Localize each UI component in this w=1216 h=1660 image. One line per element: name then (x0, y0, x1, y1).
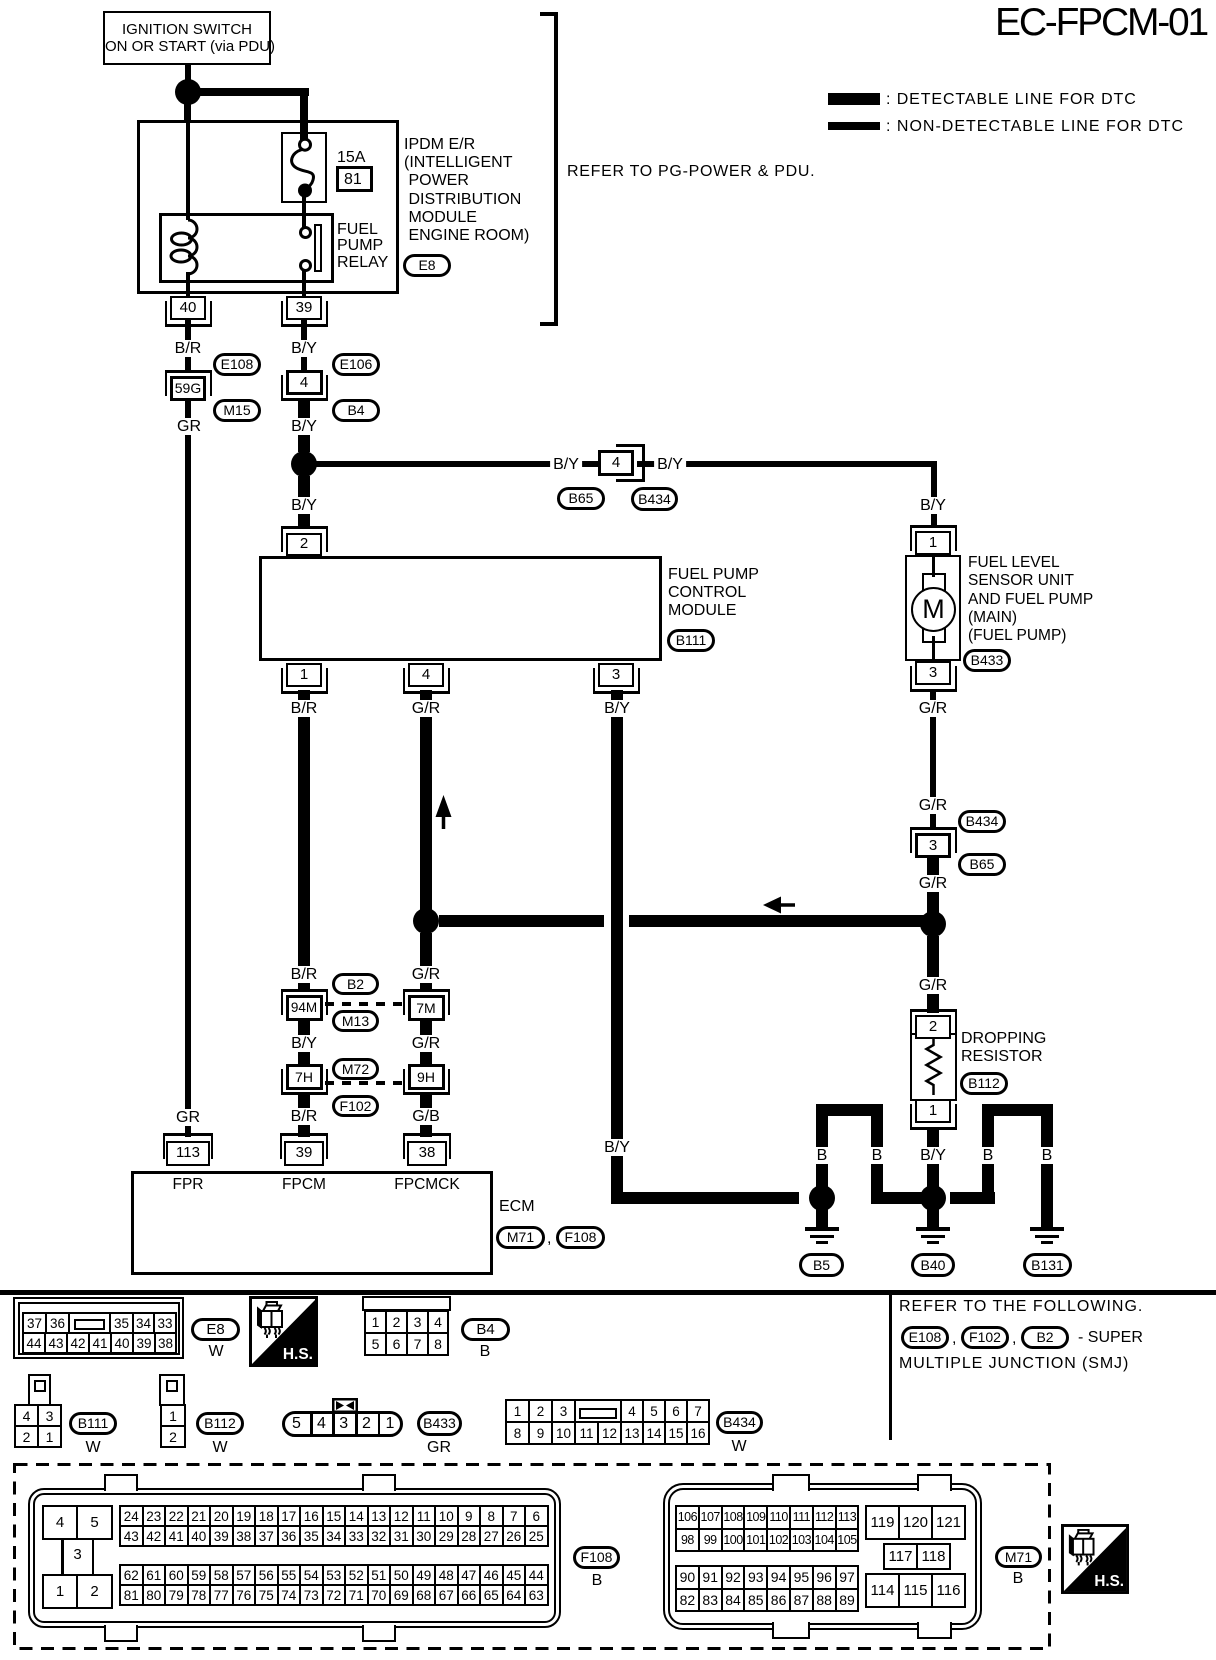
ground B5 oval (799, 1253, 844, 1277)
label G/R below 7M (409, 1035, 443, 1052)
dashed harness box (0, 1450, 1216, 1660)
label G/R above 7M (409, 966, 443, 983)
junction dot G/R right (920, 911, 946, 937)
connector E106 oval (332, 353, 380, 376)
fuel pump pin 1 box (915, 531, 951, 555)
ECM pin 113 box (166, 1141, 210, 1166)
label B staple1 right (869, 1147, 886, 1164)
connector F108 left cells top (42, 1505, 113, 1540)
connector B434 oval upper (958, 810, 1006, 833)
connector M71 shell bottom tabs (772, 1622, 810, 1639)
legend detectable text (886, 91, 1137, 108)
connector B112 tab inner square (166, 1380, 178, 1392)
wire GR 59G to ECM 113 (185, 400, 191, 1137)
ECM pin 38 bracket (403, 1133, 451, 1159)
label B/Y below 94M (288, 1035, 320, 1052)
wire B/Y resistor to ground dot (927, 1127, 939, 1191)
fuel pump pin 3 box (915, 661, 951, 685)
connector F108 grid bottom (119, 1564, 549, 1606)
label FPCMCK (394, 1176, 459, 1193)
connector 9H bracket (403, 1069, 450, 1095)
connector B433 oval row (417, 1411, 462, 1436)
wire B/R FPCM pin1 to 94M (298, 690, 310, 990)
fuel pump text block (968, 554, 1093, 645)
arrow left on G/R horizontal (762, 895, 796, 915)
connector B433 cell divider (355, 1412, 358, 1436)
connector B111 oval (69, 1412, 117, 1435)
junction dot G/R left (413, 908, 439, 934)
wire B/Y junction to SMJ4 (315, 461, 600, 467)
connector F108 shell tabs (104, 1474, 138, 1491)
label B/R above ECM (288, 1108, 321, 1125)
fuel pump pin 1 bracket (910, 525, 957, 551)
ECM pin 38 box (407, 1141, 447, 1166)
label B/Y relay (288, 340, 320, 357)
label B/Y above pin2 (288, 497, 320, 514)
refer bracket (540, 12, 558, 326)
connector 7H bracket (281, 1069, 328, 1095)
wire B/Y SMJ4 to fuel pump (637, 461, 937, 467)
ground staple1 left arm (816, 1112, 828, 1188)
ignition switch text (105, 21, 269, 55)
label B/Y below resistor (917, 1147, 949, 1164)
label G/R above junction right (916, 875, 950, 892)
label B/Y above junction (288, 418, 320, 435)
label G/R above resistor (916, 977, 950, 994)
refer smj text (899, 1355, 1129, 1373)
wire G/R SMJ3 to junction (927, 857, 939, 913)
connector M71 oval big (995, 1546, 1042, 1568)
dropping resistor text (961, 1030, 1046, 1065)
ground symbol B40 (916, 1227, 950, 1231)
connector B433 pin 3 cell box (332, 1411, 357, 1437)
fuse rating 15A (337, 149, 365, 167)
refer super text (1078, 1329, 1143, 1347)
wire junction right (199, 88, 309, 96)
connector F102 oval (332, 1095, 379, 1117)
wire G/R junction to 7M (420, 933, 432, 990)
connector B112 oval (960, 1072, 1008, 1095)
connector M15 oval (213, 399, 261, 422)
label B staple2 right (1039, 1147, 1056, 1164)
fuel level sensor unit box (905, 555, 961, 661)
dashed tie 7H to 9H (325, 1081, 409, 1085)
wire fuse to relay contact (302, 196, 306, 231)
fuse number 81 (344, 171, 362, 189)
connector M71 oval (496, 1226, 545, 1249)
ECM pin 39 box (284, 1141, 324, 1166)
connector B433 pin strip (282, 1411, 403, 1437)
wire G/R horizontal right part (629, 915, 933, 927)
label B staple1 left (814, 1147, 831, 1164)
connector B65 oval (557, 487, 605, 510)
connector 94M bracket (281, 989, 328, 1015)
connector B112 pin grid (160, 1404, 186, 1448)
refer to pg-power text (567, 163, 815, 181)
label G/R above SMJ3 (916, 797, 950, 814)
label B/R below pin1 (288, 700, 321, 717)
relay contact lower terminal (299, 259, 312, 272)
connector M72 oval (332, 1058, 379, 1080)
fuel pump relay text (337, 222, 388, 271)
label B/Y above ground bus (601, 1139, 633, 1156)
pin 2 bracket (281, 526, 328, 552)
comma 2 (1012, 1330, 1016, 1348)
label B/R left (172, 340, 205, 357)
label FPCM (282, 1176, 326, 1193)
SMJ connector 4 inline bracket (616, 444, 645, 482)
legend non-detectable text (886, 118, 1184, 135)
connector B433 cell divider (378, 1412, 381, 1436)
wire G/R FPCM pin4 down (420, 690, 432, 915)
connector M13 oval (332, 1010, 379, 1032)
connector 59G box (170, 376, 206, 401)
connector B433 pin 1 (386, 1415, 395, 1432)
SMJ connector 3 box (915, 833, 951, 858)
wire B/Y pin39 to conn4 (301, 320, 307, 372)
wire stub to ground B40 (927, 1205, 939, 1229)
H.S. logo bottom (1061, 1521, 1129, 1597)
label B under B4 (480, 1343, 491, 1360)
IPDM E/R box (137, 120, 399, 294)
ground staple2 left arm (982, 1116, 994, 1204)
label G/B above ECM (409, 1108, 443, 1125)
connector B433 oval (963, 649, 1011, 672)
wire ignition to junction (185, 63, 191, 81)
label GR bottom (173, 1109, 203, 1126)
connector E8 oval (403, 254, 451, 277)
pin 40 of IPDM (170, 296, 206, 320)
label B/Y left of SMJ4 (550, 456, 582, 473)
label W under B111 (85, 1439, 100, 1456)
connector F108 left cells bottom (42, 1574, 113, 1609)
wire G/R 7M to 9H (420, 1021, 432, 1065)
wire junction down to IPDM (184, 103, 191, 122)
pin 3 of FPCM (598, 663, 634, 687)
label GR top (174, 418, 204, 435)
connector 9H box (408, 1064, 445, 1090)
ignition switch box (103, 11, 271, 65)
connector B111 top tab (28, 1374, 51, 1406)
wire contact to pin 39 (302, 271, 306, 297)
connector B433 pin 3 (339, 1415, 348, 1432)
pin 39 bracket (281, 301, 328, 327)
junction dot ignition (175, 79, 201, 105)
arrow up on G/R wire (434, 794, 454, 830)
connector 7M bracket (403, 989, 450, 1015)
label B/R above 94M (288, 966, 321, 983)
fuel pump control module box (259, 556, 662, 661)
connector M71 right top (865, 1505, 966, 1540)
wire G/B 9H to ECM 38 (420, 1095, 432, 1137)
label B/Y above fuel pump (917, 497, 949, 514)
connector M71 grid top (675, 1505, 859, 1552)
SMJ connector 3 bracket (910, 827, 957, 853)
wire B/R 7H to ECM 39 (298, 1095, 310, 1137)
connector M71 grid bottom (675, 1565, 859, 1612)
connector B4 pin grid (364, 1310, 449, 1356)
connector E8 pin grid (22, 1312, 177, 1334)
connector B111 tab inner square (34, 1380, 46, 1392)
connector B434 oval row (716, 1411, 763, 1434)
ECM pin 39 bracket (280, 1133, 328, 1159)
label B under F108 (592, 1572, 603, 1589)
refer E108 oval (901, 1326, 949, 1349)
pin 4 of FPCM (408, 663, 444, 687)
wire coil to pin 40 (186, 272, 190, 297)
SMJ connector 4 inline box (598, 450, 634, 476)
ground symbol B5 (805, 1227, 839, 1231)
connector 4 box (E106-B4) (286, 370, 323, 395)
resistor zigzag (910, 1033, 957, 1101)
legend non-detectable line sample (828, 122, 880, 130)
connector M71 shell outer (663, 1483, 982, 1630)
connector B111 pin grid (14, 1404, 62, 1448)
refer F102 oval (961, 1326, 1009, 1349)
wire G/R horizontal left part (439, 915, 604, 927)
connector E8 grid inner frame (18, 1302, 180, 1355)
wire B/Y elbow to ground bus (611, 1192, 799, 1204)
label G/R below pump (916, 700, 950, 717)
ground staple2 top bar (982, 1104, 1053, 1116)
comma between ovals (547, 1230, 551, 1248)
connector B65 oval lower (958, 853, 1006, 876)
label W under B434 (731, 1438, 746, 1455)
connector F108 shell outer (28, 1488, 561, 1628)
connector E108 oval (213, 353, 261, 376)
wire B/Y junction to FPCM pin2 (298, 476, 310, 527)
wire B/Y conn4 to junction (298, 399, 310, 452)
connector M71 right mid (883, 1543, 951, 1570)
ground junction dot B40 (920, 1185, 946, 1211)
resistor pin 2 box (915, 1015, 951, 1039)
connector F108 oval (573, 1546, 620, 1569)
separator line (0, 1290, 1216, 1295)
ground staple1 top bar (816, 1104, 883, 1116)
connector B433 pin 5 (292, 1415, 301, 1432)
label B under M71 (1013, 1570, 1024, 1587)
pin 2 of FPCM (286, 533, 322, 556)
label B/Y right of SMJ4 (654, 456, 686, 473)
pin 39 of IPDM (286, 296, 322, 320)
IPDM text block (404, 136, 529, 245)
fuse 15A symbol (281, 132, 327, 203)
connector E8 pin grid row2 (22, 1332, 177, 1354)
ground B131 oval (1023, 1253, 1072, 1277)
relay coil (168, 216, 208, 280)
connector M71 shell inner (668, 1488, 977, 1625)
wire B/Y 94M to 7H (298, 1021, 310, 1065)
ground B40 oval (911, 1253, 955, 1277)
wire G/R junction to resistor (927, 936, 939, 1013)
junction dot B/Y (291, 451, 317, 477)
resistor pin 2 bracket (910, 1009, 957, 1035)
ECM pin 113 bracket (163, 1133, 213, 1159)
wire down to fuse (300, 88, 308, 146)
connector B4 oval (332, 399, 380, 422)
connector B4 oval bottom (461, 1318, 510, 1341)
connector B433 pin 2 (362, 1415, 371, 1432)
ECM text (499, 1198, 535, 1216)
label B/Y below pin3 (601, 700, 633, 717)
fuel pump motor inner rect (922, 573, 946, 643)
connector E8 grid outer (13, 1297, 184, 1359)
svg-text:H.S.: H.S. (1094, 1573, 1124, 1590)
connector 4 bracket (281, 375, 328, 401)
label cell 3 F108 (73, 1546, 81, 1563)
ground staple2 right arm to B131 (1041, 1116, 1053, 1229)
label GR under B433 (427, 1439, 451, 1456)
fuse box (281, 132, 327, 203)
ground symbol B131 (1030, 1227, 1064, 1231)
connector 94M box (286, 995, 323, 1021)
refer to the following text (899, 1298, 1143, 1316)
relay contact bar (314, 224, 322, 272)
connector B112 oval (196, 1412, 244, 1435)
dropping resistor box (910, 1033, 957, 1101)
connector B111 oval (667, 629, 715, 652)
connector B112 top tab (159, 1374, 185, 1406)
ground bus segment B40 right (950, 1192, 995, 1204)
label B staple2 left (980, 1147, 997, 1164)
connector E8 oval bottom (191, 1318, 240, 1341)
pin 1 bracket FPCM (281, 668, 328, 694)
title EC-FPCM-01 (995, 3, 1207, 43)
pin 4 bracket FPCM (403, 668, 450, 694)
FPCM text (668, 566, 759, 621)
connector M71 right bottom (865, 1573, 966, 1608)
connector B433 keying box with X (332, 1398, 358, 1413)
ground staple1 right arm (871, 1116, 883, 1204)
legend detectable line sample (828, 93, 880, 105)
resistor pin 1 box (915, 1099, 951, 1123)
fuel pump pin 3 bracket (910, 666, 957, 692)
wire G/R pump to SMJ3 (930, 690, 936, 830)
dashed tie 94M to 7M (325, 1002, 409, 1006)
wire stub to ground B5 (816, 1205, 828, 1229)
H.S. logo top (249, 1296, 318, 1367)
connector B434 oval small (631, 487, 678, 511)
label W under B112 (212, 1439, 227, 1456)
fuse number 81 box (336, 166, 373, 192)
connector F108 shell inner (33, 1493, 556, 1623)
ground junction dot B5 (809, 1185, 835, 1211)
fuel pump relay box (159, 213, 334, 283)
label G/R below pin4 (409, 700, 443, 717)
pin 3 bracket FPCM (593, 668, 640, 694)
connector F108 oval (556, 1226, 605, 1249)
connector F108 shell bottom tabs (104, 1625, 138, 1642)
connector B433 cell divider (310, 1412, 313, 1436)
resistor pin 1 bracket (910, 1104, 957, 1130)
connector B4 top bar (362, 1296, 451, 1311)
label W under E8 (208, 1343, 223, 1360)
connector B433 pin 4 (317, 1415, 326, 1432)
refer B2 oval (1021, 1326, 1069, 1349)
wire pump internal bottom (932, 636, 935, 661)
connector B2 oval (332, 973, 379, 995)
connector B434 pin grid (505, 1399, 710, 1445)
pin 40 bracket (165, 301, 212, 327)
label FPR (173, 1176, 204, 1193)
ECM box (131, 1171, 493, 1275)
connector 59G bracket (165, 370, 212, 396)
divider line bottom section (889, 1295, 892, 1440)
wire into relay coil (186, 120, 190, 220)
comma 1 (952, 1330, 956, 1348)
wire pump internal top (932, 555, 935, 577)
connector F108 grid top (119, 1505, 549, 1547)
connector 7H box (286, 1064, 323, 1090)
connector F108 cell 3 sides (61, 1538, 64, 1575)
wire B/Y down to fuel pump pin1 (931, 461, 937, 527)
svg-text:H.S.: H.S. (283, 1346, 313, 1363)
wire B/Y FPCM pin3 down (611, 690, 623, 1192)
wire B/R pin40 to 59G (185, 320, 191, 372)
pin 1 of FPCM (286, 663, 322, 687)
connector M71 shell tabs (772, 1474, 810, 1491)
connector B433 cell divider (332, 1412, 335, 1436)
relay contact upper terminal (299, 226, 312, 239)
motor M circle (911, 587, 956, 632)
ground bus segment to B40 (871, 1192, 933, 1204)
connector 7M box (408, 995, 445, 1021)
